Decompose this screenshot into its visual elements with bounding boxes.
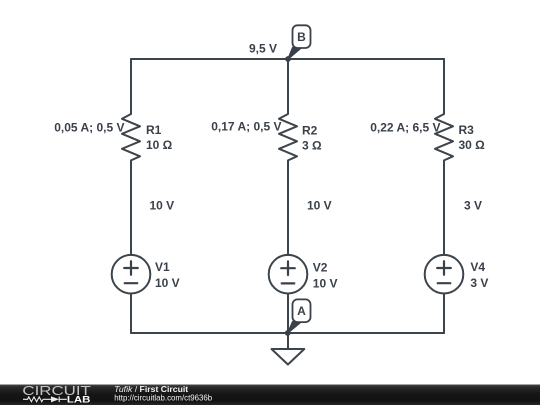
svg-text:R3: R3: [459, 123, 475, 137]
svg-text:http://circuitlab.com/ct9636b: http://circuitlab.com/ct9636b: [114, 393, 212, 403]
svg-text:A: A: [297, 304, 306, 318]
svg-text:R2: R2: [302, 124, 318, 138]
svg-text:0,22 A; 6,5 V: 0,22 A; 6,5 V: [370, 120, 440, 134]
svg-text:B: B: [297, 30, 306, 44]
svg-text:3 V: 3 V: [464, 198, 482, 212]
svg-text:V1: V1: [155, 260, 170, 274]
svg-text:3 V: 3 V: [470, 276, 488, 290]
svg-text:0,17 A; 0,5 V: 0,17 A; 0,5 V: [211, 120, 281, 134]
svg-text:9,5 V: 9,5 V: [249, 41, 277, 55]
svg-text:10 V: 10 V: [150, 198, 175, 212]
svg-text:LAB: LAB: [67, 394, 91, 404]
svg-text:V4: V4: [470, 260, 485, 274]
svg-text:10 Ω: 10 Ω: [146, 138, 173, 152]
svg-text:10 V: 10 V: [313, 277, 338, 291]
svg-text:3 Ω: 3 Ω: [302, 139, 322, 153]
svg-text:R1: R1: [146, 123, 162, 137]
svg-text:0,05 A; 0,5 V: 0,05 A; 0,5 V: [54, 120, 124, 134]
svg-text:V2: V2: [313, 261, 328, 275]
svg-text:10 V: 10 V: [155, 276, 180, 290]
svg-text:10 V: 10 V: [307, 198, 332, 212]
svg-text:30 Ω: 30 Ω: [459, 138, 486, 152]
